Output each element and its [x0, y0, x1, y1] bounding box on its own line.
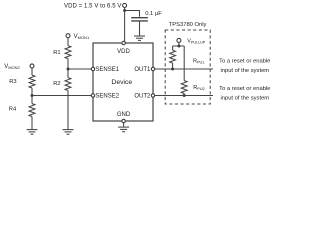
wire R4 to ground [31, 117, 33, 130]
svg-text:OUT1: OUT1 [134, 67, 151, 73]
wire V_MON2 to R3 [31, 68, 33, 75]
svg-text:Device: Device [111, 79, 132, 86]
svg-text:VPULLUP: VPULLUP [187, 38, 206, 44]
node junction V_PULLUP tee [177, 45, 180, 48]
ground (R2) [63, 130, 74, 135]
ground (capacitor) [134, 36, 145, 40]
wire R3 to SENSE2 node [31, 88, 33, 96]
wire VDD supply vertical [124, 7, 126, 43]
svg-text:R4: R4 [9, 107, 17, 113]
pin SENSE2 [91, 94, 94, 97]
svg-text:input of the system: input of the system [220, 96, 269, 102]
terminal V_MON2 [30, 64, 34, 68]
node junction R_PU1/OUT1 [171, 68, 174, 71]
capacitor C1 0.1uF [131, 18, 148, 21]
wire GND pin to ground [123, 123, 125, 127]
device U1 box [93, 43, 153, 121]
svg-text:To a reset or enable: To a reset or enable [219, 58, 270, 64]
wire node to SENSE2 [32, 95, 93, 97]
resistor R3 [29, 75, 35, 88]
resistor R1 [65, 46, 71, 59]
wire OUT1 to system [153, 68, 213, 70]
svg-text:RPU2: RPU2 [193, 85, 204, 91]
svg-text:VMON1: VMON1 [74, 34, 90, 40]
wire VDD to capacitor branch [125, 11, 140, 17]
svg-text:0.1 µF: 0.1 µF [145, 11, 162, 17]
wire node to R4 [31, 96, 33, 104]
pin SENSE1 [91, 67, 94, 70]
node junction R1/R2/SENSE1 [67, 68, 70, 71]
wire node to SENSE1 [68, 68, 93, 70]
svg-text:R2: R2 [53, 81, 60, 87]
terminal VDD supply [123, 3, 127, 7]
wire R_PU1 to OUT1 node [172, 63, 174, 69]
node junction R_PU2/OUT2 [183, 94, 186, 97]
resistor R4 [29, 104, 35, 117]
pin OUT1 [151, 67, 154, 70]
terminal V_PULLUP [177, 38, 181, 42]
resistor R_PU2 [181, 81, 187, 94]
svg-text:R3: R3 [9, 79, 16, 85]
node junction R3/R4/SENSE2 [31, 94, 34, 97]
wire V_MON1 to R1 [67, 38, 69, 46]
wire V_PULLUP stem and tee bar [173, 42, 185, 46]
ground (GND pin) [118, 127, 129, 132]
wire R1 to SENSE1 node [67, 59, 69, 69]
wire R2 to ground [67, 91, 69, 130]
svg-text:VDD: VDD [117, 49, 130, 55]
pin VDD [122, 41, 125, 44]
wire tee to R_PU1 [172, 46, 174, 50]
pin OUT2 [151, 94, 154, 97]
svg-text:SENSE1: SENSE1 [95, 67, 119, 73]
svg-text:SENSE2: SENSE2 [95, 94, 119, 100]
svg-text:TPS3780 Only: TPS3780 Only [169, 22, 207, 28]
svg-text:RPU1: RPU1 [193, 59, 204, 65]
wire node to R2 [67, 69, 69, 78]
resistor R_PU1 [170, 50, 176, 63]
terminal V_MON1 [66, 34, 70, 38]
svg-text:To a reset or enable: To a reset or enable [219, 86, 270, 92]
resistor R2 [65, 78, 71, 91]
svg-text:OUT2: OUT2 [134, 94, 151, 100]
svg-text:R1: R1 [53, 50, 60, 56]
svg-text:VMON2: VMON2 [4, 64, 20, 70]
svg-text:VDD = 1.5 V to 6.5 V: VDD = 1.5 V to 6.5 V [64, 4, 121, 10]
ground (R4) [27, 130, 38, 135]
svg-text:input of the system: input of the system [220, 68, 269, 74]
wire R_PU2 to OUT2 node [183, 94, 185, 96]
wire tee to R_PU2 [183, 46, 185, 81]
wire capacitor to ground [139, 22, 141, 36]
TPS3780 Only dashed box [165, 30, 210, 104]
pin GND [122, 119, 125, 122]
wire OUT2 to system [153, 95, 213, 97]
node junction VDD/cap [123, 9, 126, 12]
svg-text:GND: GND [117, 112, 131, 118]
